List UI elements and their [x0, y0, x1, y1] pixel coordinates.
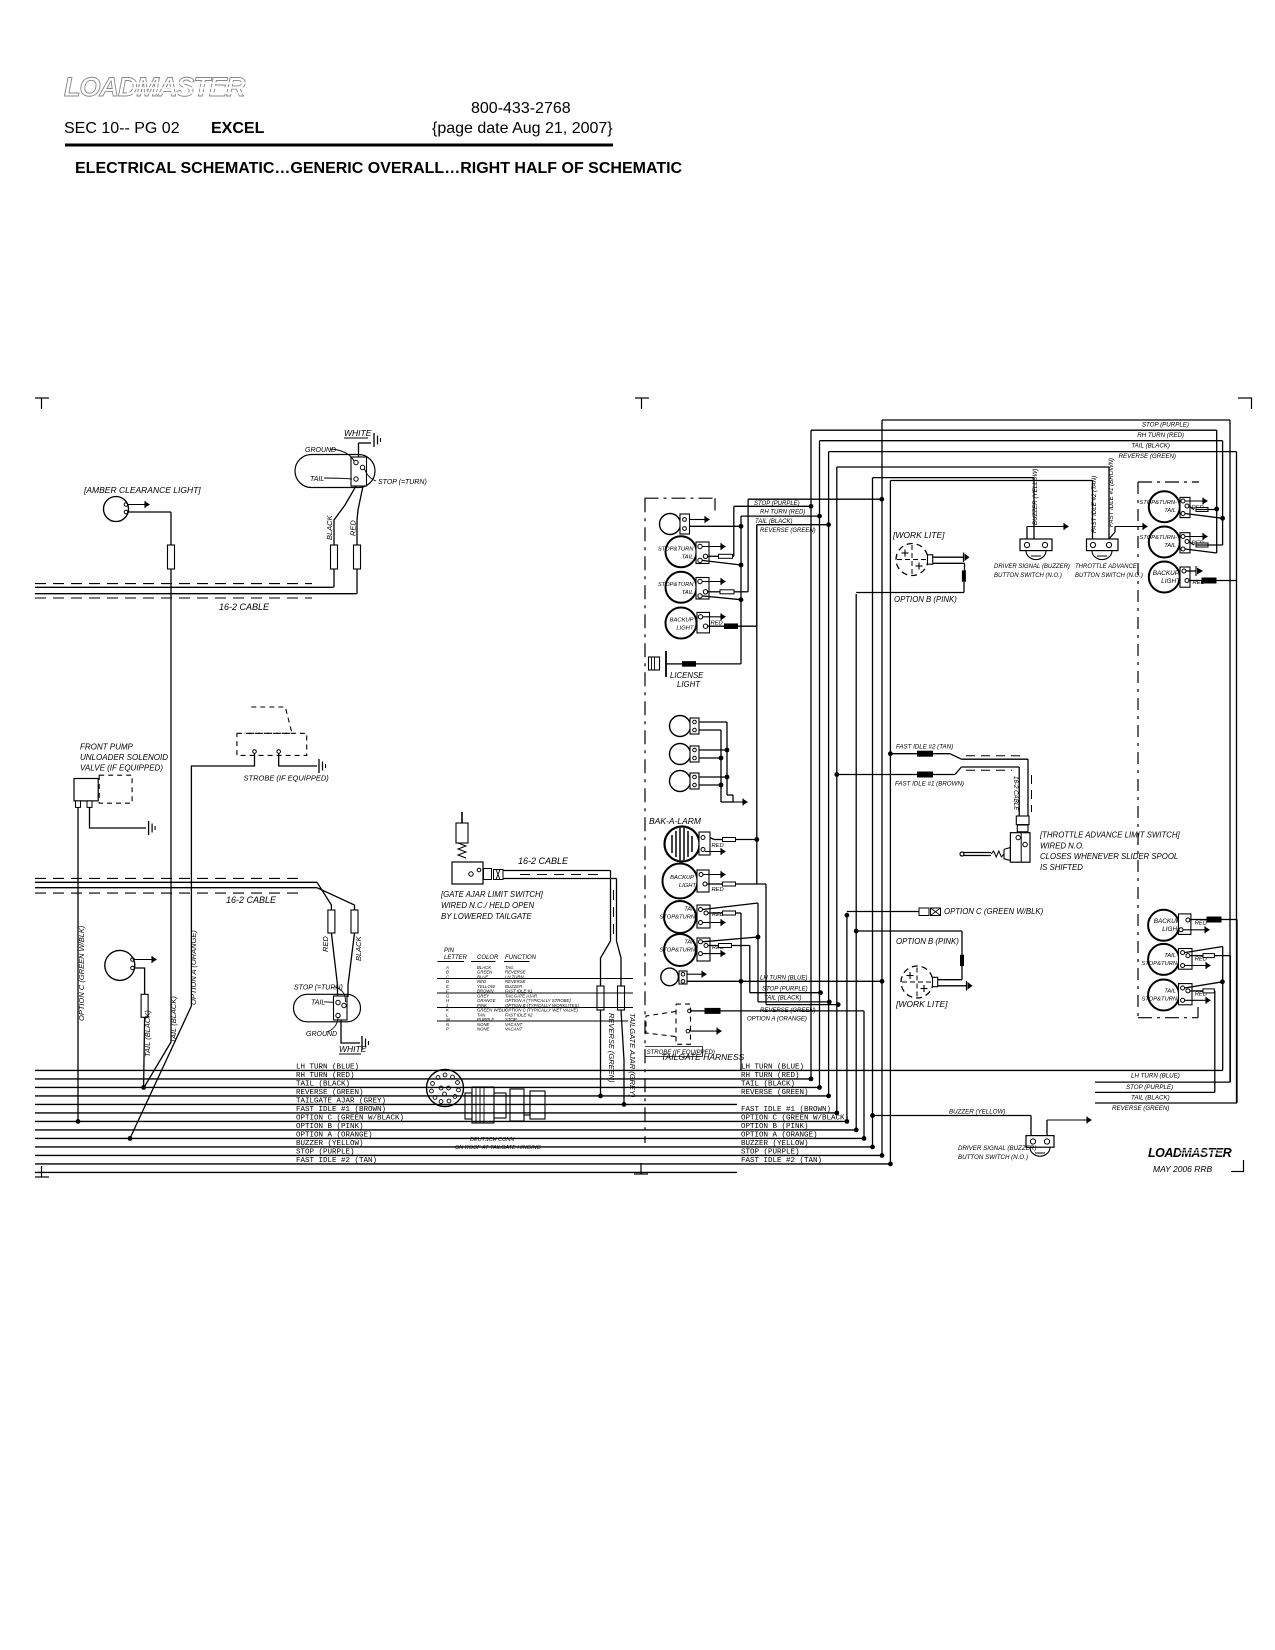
svg-text:TAIL (BLACK): TAIL (BLACK): [1131, 1094, 1170, 1101]
svg-text:LH TURN (BLUE): LH TURN (BLUE): [296, 1064, 359, 1072]
svg-text:OPTION C (GREEN W/BLACK): OPTION C (GREEN W/BLACK): [296, 1115, 404, 1123]
svg-text:STOP&TURN-: STOP&TURN-: [1141, 997, 1179, 1003]
svg-text:OPTION A (ORANGE): OPTION A (ORANGE): [296, 1132, 373, 1140]
svg-text:COLOR: COLOR: [477, 955, 499, 961]
R4 ground arrow: [1183, 929, 1206, 931]
wire RED from lower cable: [317, 882, 331, 910]
top feeder BUZZER: [873, 477, 1035, 479]
wire marker lamp to tail bus: [134, 968, 145, 994]
svg-text:OPTION C (GREEN W/BLK): OPTION C (GREEN W/BLK): [77, 925, 86, 1021]
svg-text:STOP&TURN: STOP&TURN: [658, 582, 694, 588]
header rule: [65, 144, 613, 147]
net stub STOP (PURPLE) group1: [748, 498, 882, 500]
riser RH TURN: [810, 430, 812, 1079]
wire BLACK from lower cable: [317, 888, 355, 910]
bus wire L2: [35, 1078, 811, 1080]
svg-text:RED: RED: [349, 520, 358, 536]
gate ajar limit switch antenna: [461, 812, 463, 843]
svg-text:OPTION B (PINK): OPTION B (PINK): [296, 1123, 364, 1131]
work lite upper dashed lamp: [896, 544, 928, 576]
backup light lamp group1: [666, 608, 697, 639]
svg-text:LIGHT: LIGHT: [1161, 578, 1181, 585]
R6 ground arrow: [1185, 999, 1207, 1001]
ground symbol solenoid: [148, 821, 150, 835]
top feeder TAIL (BLACK): [820, 440, 1223, 442]
corner mark bottom-middle: [634, 1173, 648, 1175]
R1 fuse wire to RH TURN feeder: [1196, 508, 1208, 512]
riser FAST IDLE #2: [889, 481, 891, 1164]
16-2 cable upper (sheath dashes): [35, 583, 312, 585]
bus wire L13: [35, 1171, 737, 1173]
svg-text:P: P: [446, 1026, 449, 1031]
bak-a-larm speaker: [665, 827, 700, 862]
far right wire STOP (PURPLE): [1095, 1081, 1230, 1083]
throttle advance limit switch body: [1010, 833, 1030, 863]
svg-text:WHITE: WHITE: [344, 428, 372, 438]
svg-text:FUNCTION: FUNCTION: [505, 955, 537, 961]
gate ajar limit switch body: [452, 862, 483, 884]
corner mark top-right: [1238, 397, 1252, 399]
svg-text:SEC 10-- PG 02: SEC 10-- PG 02: [64, 120, 180, 137]
R5 ground arrow: [1185, 965, 1207, 967]
svg-text:REVERSE (GREEN): REVERSE (GREEN): [1119, 453, 1176, 460]
svg-text:RH TURN (RED): RH TURN (RED): [296, 1072, 355, 1080]
solenoid valve body: [74, 779, 98, 801]
fuse and wire to RH TURN stub: [719, 554, 733, 558]
marker lamp left lower: [105, 950, 135, 980]
svg-text:TAIL: TAIL: [311, 1000, 325, 1007]
svg-text:RED: RED: [712, 843, 724, 849]
net stub RH TURN (RED) group1: [734, 505, 811, 507]
R5 fuse wire to STOP vertical: [1203, 954, 1214, 958]
svg-text:[WORK LITE]: [WORK LITE]: [895, 999, 948, 1009]
svg-text:TAIL: TAIL: [1164, 543, 1176, 549]
svg-text:OPTION B (PINK): OPTION B (PINK): [896, 937, 959, 946]
svg-text:BUTTON SWITCH (N.O.): BUTTON SWITCH (N.O.): [958, 1154, 1028, 1161]
R3 fuse wire to REVERSE feeder: [1202, 578, 1216, 583]
wire marker lamp to tail drop: [690, 525, 742, 527]
tailgate harness dash-dot border left: [644, 498, 646, 1143]
svg-text:BACKUP: BACKUP: [670, 875, 694, 881]
svg-text:LICENSE: LICENSE: [670, 671, 704, 680]
svg-text:[GATE AJAR LIMIT SWITCH]: [GATE AJAR LIMIT SWITCH]: [440, 890, 544, 899]
marker lamp group2 #1: [670, 716, 691, 737]
svg-text:BAK-A-LARM: BAK-A-LARM: [649, 816, 702, 826]
arrow from driver switch: [1026, 527, 1028, 540]
svg-text:{page date Aug 21, 2007}: {page date Aug 21, 2007}: [432, 120, 613, 137]
tail lamp oval upper: [295, 455, 375, 488]
svg-text:BUTTON SWITCH (N.O.): BUTTON SWITCH (N.O.): [994, 573, 1062, 579]
svg-text:REVERSE (GREEN): REVERSE (GREEN): [741, 1089, 809, 1097]
svg-text:STOP&TURN-: STOP&TURN-: [1141, 961, 1179, 967]
svg-text:OPTION A (ORANGE): OPTION A (ORANGE): [189, 930, 198, 1005]
svg-text:RH TURN (RED): RH TURN (RED): [741, 1072, 800, 1080]
svg-text:16-2 CABLE: 16-2 CABLE: [219, 602, 270, 612]
svg-text:BUZZER (YELLOW): BUZZER (YELLOW): [296, 1140, 364, 1148]
svg-text:PIN: PIN: [444, 948, 455, 954]
svg-text:RH TURN (RED): RH TURN (RED): [1137, 432, 1184, 439]
fuse and wire to STOP stub: [720, 590, 734, 594]
marker lamps ground arrow: [733, 801, 744, 803]
solenoid valve terminals: [76, 801, 81, 808]
corner mark top-left: [35, 397, 49, 399]
svg-text:TAIL: TAIL: [1164, 953, 1176, 959]
svg-text:[WORK LITE]: [WORK LITE]: [892, 530, 945, 540]
svg-text:OPTION B (PINK): OPTION B (PINK): [894, 595, 957, 604]
marker lamps common ground wires: [720, 730, 722, 802]
svg-text:BUZZER (YELLOW): BUZZER (YELLOW): [949, 1109, 1005, 1116]
net stub REVERSE (GREEN) group2: [766, 1004, 838, 1006]
svg-text:BACKUP: BACKUP: [1153, 570, 1180, 577]
wire row G long line: [437, 992, 633, 994]
svg-text:LIGHT: LIGHT: [679, 883, 697, 889]
fuse splice on amber light wire: [168, 545, 175, 569]
R6 slant to LH vertical: [1185, 982, 1223, 988]
stop&turn tail lamp R2: [1149, 527, 1180, 558]
bus wire L11: [35, 1154, 882, 1156]
strobe upper dashed body: [245, 707, 292, 733]
16-2 cable lower-left conductors: [35, 881, 317, 883]
svg-text:FAST IDLE #2 (TAN): FAST IDLE #2 (TAN): [741, 1157, 822, 1165]
wire work lite lower to option B riser: [938, 979, 962, 981]
svg-text:FAST IDLE #1 (BROWN): FAST IDLE #1 (BROWN): [741, 1106, 831, 1114]
svg-text:ELECTRICAL SCHEMATIC…GENERIC O: ELECTRICAL SCHEMATIC…GENERIC OVERALL…RIG…: [75, 160, 683, 177]
svg-text:BUZZER (YELLOW): BUZZER (YELLOW): [741, 1140, 809, 1148]
wire RED from upper tail lamp: [357, 486, 363, 545]
svg-text:TAIL: TAIL: [682, 554, 694, 560]
svg-text:IS SHIFTED: IS SHIFTED: [1040, 863, 1083, 872]
limit switch roller lever: [963, 852, 991, 854]
wire strobe right terminal to ground: [279, 754, 317, 767]
driver signal buzzer button switch lower: [1026, 1136, 1054, 1148]
wire row M long line: [437, 1020, 628, 1022]
marker lamp group2 #3: [670, 771, 691, 792]
svg-text:VACANT: VACANT: [505, 1026, 523, 1031]
wire WHITE lower to ground: [341, 1020, 360, 1043]
reverse chain wire down group2: [756, 525, 758, 840]
bak-a-larm fuse to reverse chain: [723, 838, 736, 842]
net stub STOP (PURPLE) group2: [750, 992, 821, 994]
net stub TAIL (BLACK) group2: [758, 1001, 829, 1003]
riser BUZZER: [872, 478, 874, 1147]
svg-text:STOP (=TURN): STOP (=TURN): [378, 479, 427, 486]
marker lamp ground arrow: [134, 959, 153, 961]
tailgate harness dash-dot border top: [645, 497, 716, 499]
svg-text:TAIL: TAIL: [682, 590, 694, 596]
arrow from throttle switch: [1109, 532, 1115, 539]
lamp t1 ground arrow: [703, 922, 722, 924]
riser OPTION A: [863, 1011, 865, 1139]
top feeder FAST IDLE #2: [890, 480, 1092, 482]
right group border bottom: [1138, 1017, 1198, 1019]
backup light lamp R3: [1149, 562, 1180, 593]
bus wire L4: [35, 1095, 829, 1097]
work lite upper connector: [928, 555, 933, 564]
deutsch connector side view: [465, 1093, 472, 1119]
ground arrow lamp: [702, 546, 722, 548]
svg-text:WIRED N.O.: WIRED N.O.: [1040, 842, 1084, 851]
work lite lower connector: [933, 977, 938, 986]
solenoid valve dashed section: [99, 775, 132, 803]
tail stop&turn lamp group2 #2: [664, 934, 696, 966]
16-2 cable lower-left (sheath dashes): [35, 877, 305, 879]
svg-text:BY LOWERED TAILGATE: BY LOWERED TAILGATE: [441, 912, 532, 921]
stop&turn tail lamp R1: [1149, 491, 1180, 522]
wire row K long line: [437, 1007, 633, 1009]
svg-text:STOP (=TURN): STOP (=TURN): [294, 985, 343, 992]
svg-text:TAIL: TAIL: [1164, 989, 1176, 995]
wire amber light to 16-2 cable: [128, 511, 171, 513]
wire solenoid second terminal to ground: [90, 807, 147, 828]
svg-text:OPTION B (PINK): OPTION B (PINK): [741, 1123, 809, 1131]
fuse on BLACK wire: [331, 545, 338, 569]
tail stop&turn lamp group2 #1: [664, 901, 696, 933]
svg-text:BACKUP: BACKUP: [670, 618, 694, 624]
svg-text:RH TURN (RED): RH TURN (RED): [760, 509, 805, 515]
svg-text:DRIVER SIGNAL (BUZZER): DRIVER SIGNAL (BUZZER): [958, 1145, 1036, 1152]
svg-text:STOP (PURPLE): STOP (PURPLE): [762, 986, 808, 992]
svg-text:STROBE (IF EQUIPPED): STROBE (IF EQUIPPED): [244, 774, 330, 783]
svg-text:800-433-2768: 800-433-2768: [471, 100, 571, 117]
lamp t1 fuse to LH chain: [723, 911, 736, 915]
svg-text:LOADMASTER: LOADMASTER: [64, 72, 246, 102]
right lamp group dash-dot border: [1138, 481, 1199, 483]
svg-text:STOP&TURN: STOP&TURN: [658, 546, 694, 552]
svg-text:FAST IDLE #1 (BROWN): FAST IDLE #1 (BROWN): [296, 1106, 386, 1114]
tail lamp upper connector: [351, 457, 367, 486]
svg-text:STOP (PURPLE): STOP (PURPLE): [1142, 422, 1189, 429]
svg-text:TAILGATE AJAR (GREY): TAILGATE AJAR (GREY): [628, 1013, 637, 1098]
svg-text:16-2 CABLE: 16-2 CABLE: [226, 895, 277, 905]
gate ajar switch connector halves: [484, 869, 492, 880]
R2 ground slant: [1185, 549, 1217, 553]
svg-text:TAIL: TAIL: [684, 907, 696, 913]
marker lamp group1 ground arrow: [690, 519, 706, 521]
wire amber trunk slant to TAIL bus junction: [144, 1042, 171, 1087]
svg-text:REVERSE (GREEN): REVERSE (GREEN): [1112, 1105, 1169, 1112]
top feeder STOP (PURPLE): [882, 419, 1230, 421]
svg-text:STOP&TURN-: STOP&TURN-: [659, 915, 697, 921]
bus wire L7: [35, 1120, 847, 1122]
marker lamp group1 top: [660, 514, 681, 535]
svg-text:STOP (PURPLE): STOP (PURPLE): [296, 1149, 355, 1157]
svg-text:TAIL: TAIL: [684, 940, 696, 946]
work lite lower dashed lamp: [901, 966, 933, 998]
svg-text:BLACK: BLACK: [325, 514, 334, 540]
tail stop&turn lamp R6: [1148, 980, 1179, 1011]
net stub REVERSE (GREEN) group1: [757, 524, 829, 526]
backup light lamp R4 lower right: [1148, 910, 1179, 941]
svg-text:TAIL (BLACK): TAIL (BLACK): [296, 1081, 350, 1089]
svg-text:GROUND: GROUND: [305, 447, 336, 454]
riser FAST IDLE #1: [836, 467, 838, 1113]
bus wire L9: [35, 1137, 864, 1139]
R6 fuse wire to TAIL vertical: [1203, 989, 1214, 993]
riser OPTION C: [846, 915, 848, 1121]
strobe upper terminals: [253, 750, 257, 754]
svg-text:OPTION C (GREEN W/BLK): OPTION C (GREEN W/BLK): [944, 907, 1044, 916]
svg-text:RED: RED: [321, 936, 330, 952]
backup light lamp group2: [663, 864, 698, 899]
svg-text:RED: RED: [712, 887, 724, 893]
svg-text:LH TURN (BLUE): LH TURN (BLUE): [741, 1064, 804, 1072]
option C breakout connector: [845, 913, 850, 918]
svg-text:THROTTLE ADVANCE: THROTTLE ADVANCE: [1075, 564, 1138, 570]
svg-text:TAIL (BLACK): TAIL (BLACK): [764, 996, 801, 1002]
svg-text:UNLOADER SOLENOID: UNLOADER SOLENOID: [80, 753, 168, 762]
ground symbol lower oval: [361, 1036, 363, 1050]
svg-text:LH TURN (BLUE): LH TURN (BLUE): [1131, 1073, 1180, 1080]
svg-text:FAST IDLE #1 (BROWN): FAST IDLE #1 (BROWN): [1108, 458, 1115, 527]
stop&turn tail lamp group1 upper: [666, 536, 697, 567]
lamp t2 ground arrow: [703, 953, 722, 955]
bus wire L10: [35, 1146, 873, 1148]
svg-text:FAST IDLE #2 (TAN): FAST IDLE #2 (TAN): [1091, 476, 1098, 533]
svg-text:TAIL (BLACK): TAIL (BLACK): [169, 996, 178, 1043]
svg-text:16-2 CABLE: 16-2 CABLE: [518, 856, 569, 866]
corner mark bottom-left: [35, 1176, 49, 1178]
svg-text:TAIL (BLACK): TAIL (BLACK): [741, 1081, 795, 1089]
wire strobe lower to OPTION A riser: [691, 1010, 705, 1012]
driver signal buzzer button switch: [1020, 539, 1052, 551]
top feeder FAST IDLE #1: [837, 466, 1109, 468]
junction TAIL bus: [141, 1085, 146, 1090]
svg-text:LIGHT: LIGHT: [677, 680, 701, 689]
svg-text:GROUND: GROUND: [306, 1031, 337, 1038]
svg-text:OPTION C (GREEN W/BLACK): OPTION C (GREEN W/BLACK): [741, 1115, 849, 1123]
16-2 cable upper conductors: [35, 586, 334, 588]
marker lamp group2 bottom: [661, 968, 679, 986]
riser REVERSE: [828, 452, 830, 1096]
fuse BLACK lower oval: [351, 910, 358, 933]
svg-text:STOP (PURPLE): STOP (PURPLE): [741, 1149, 800, 1157]
wire TAILGATE AJAR (GREY) from gate switch: [617, 941, 622, 986]
ground symbol at upper tail lamp: [373, 433, 375, 447]
fuse on RED wire: [354, 545, 361, 569]
bus wire L3: [35, 1086, 820, 1088]
svg-text:REVERSE (GREEN): REVERSE (GREEN): [607, 1013, 616, 1083]
svg-text:REVERSE (GREEN): REVERSE (GREEN): [760, 528, 816, 534]
bus wire L5: [35, 1103, 737, 1105]
wire ground pin to tail drop: [702, 560, 741, 565]
svg-text:STOP&TURN-: STOP&TURN-: [1139, 535, 1177, 541]
fuse marker lamp wire: [141, 994, 148, 1017]
license light fuse: [683, 662, 696, 667]
bus wire L6: [35, 1112, 837, 1114]
marker lamp group2 #2: [670, 744, 691, 765]
svg-text:RED: RED: [1195, 921, 1207, 927]
fuse RED lower oval: [328, 910, 335, 933]
svg-text:BUTTON SWITCH (N.O.): BUTTON SWITCH (N.O.): [1075, 573, 1143, 579]
wire license to tail drop: [740, 516, 742, 664]
buzzer bottom wire: [870, 1113, 875, 1118]
riser OPTION B: [855, 594, 857, 1130]
R5 slant to LH vertical: [1185, 947, 1223, 953]
tail stop&turn lamp R5: [1148, 944, 1179, 975]
arrow from lower driver switch: [1046, 1120, 1048, 1136]
ground symbol strobe upper: [318, 759, 320, 773]
svg-text:OPTION A (ORANGE): OPTION A (ORANGE): [747, 1017, 807, 1023]
svg-text:FAST IDLE #2 (TAN): FAST IDLE #2 (TAN): [296, 1157, 377, 1165]
svg-text:REVERSE (GREEN): REVERSE (GREEN): [296, 1089, 364, 1097]
svg-text:TAILGATE HARNESS: TAILGATE HARNESS: [661, 1052, 745, 1062]
wire FAST IDLE #2 to limit switch cable: [888, 751, 893, 756]
junction solenoid wire on OPTION C bus: [76, 1119, 81, 1124]
lamp t2 fuse to STOP chain: [719, 944, 732, 948]
svg-text:DRIVER SIGNAL (BUZZER): DRIVER SIGNAL (BUZZER): [994, 564, 1070, 570]
wire strobe to OPTION A trunk: [191, 754, 254, 1007]
license light symbol: [649, 657, 660, 670]
tail lamp lower connector: [334, 996, 348, 1020]
corner mark bottom-right: [1231, 1171, 1244, 1173]
bus wire L8: [35, 1129, 856, 1131]
svg-text:16-2 CABLE: 16-2 CABLE: [1012, 776, 1019, 811]
bus wire L1: [35, 1069, 1223, 1071]
svg-text:WIRED N.C./ HELD OPEN: WIRED N.C./ HELD OPEN: [441, 901, 535, 910]
wire FAST IDLE #1 to limit switch cable: [834, 772, 839, 777]
wire amber light trunk down to tail bus: [170, 569, 172, 1042]
wire work lite to option B riser: [933, 556, 964, 558]
svg-text:BUZZER (YELLOW): BUZZER (YELLOW): [1032, 469, 1039, 525]
far right wire TAIL (BLACK): [1095, 1091, 1215, 1093]
wire solenoid to OPTION C bus: [77, 807, 79, 1121]
stop&turn tail lamp group1 lower: [666, 572, 697, 603]
limit switch connector: [1016, 816, 1029, 825]
wire strobe OPTION A slant to bus: [130, 1006, 191, 1138]
svg-text:[AMBER CLEARANCE LIGHT]: [AMBER CLEARANCE LIGHT]: [83, 485, 201, 495]
wire row C long line: [437, 978, 633, 980]
svg-text:MAY 2006 RRB: MAY 2006 RRB: [1153, 1164, 1213, 1174]
16-2 cable center turn down: [610, 871, 612, 942]
svg-text:CLOSES WHENEVER SLIDER SPOOL: CLOSES WHENEVER SLIDER SPOOL: [1040, 852, 1178, 861]
net stub TAIL (BLACK) group1: [741, 515, 820, 517]
deutsch connector face: [427, 1070, 464, 1107]
svg-text:LIGHT: LIGHT: [676, 626, 694, 632]
svg-text:EXCEL: EXCEL: [211, 120, 265, 137]
svg-text:STOP&TURN-: STOP&TURN-: [1139, 500, 1177, 506]
svg-text:STOP&TURN-: STOP&TURN-: [659, 948, 697, 954]
svg-text:STOP (PURPLE): STOP (PURPLE): [1126, 1084, 1173, 1091]
tail lamp oval lower: [294, 994, 361, 1022]
amber clearance light ground arrow: [128, 504, 146, 506]
svg-text:BACKUP: BACKUP: [1154, 918, 1181, 925]
backup group2 fuse to reverse chain: [723, 882, 736, 886]
corner mark top-middle: [635, 397, 649, 399]
bak-a-larm ground arrow: [705, 851, 722, 853]
wire BLACK from upper tail lamp: [334, 486, 356, 545]
R4 wire to REVERSE line: [1236, 920, 1238, 1104]
amber clearance light lamp: [104, 497, 129, 522]
riser TAIL: [819, 441, 821, 1088]
svg-text:VALVE (IF EQUIPPED): VALVE (IF EQUIPPED): [80, 764, 163, 773]
svg-text:TAIL: TAIL: [310, 476, 324, 483]
svg-text:ON ROOF AT TAILGATE HINGING: ON ROOF AT TAILGATE HINGING: [455, 1145, 542, 1151]
strobe lower arrow: [690, 1030, 718, 1032]
svg-text:LETTER: LETTER: [444, 955, 468, 961]
R1 ground slant to TAIL feeder: [1185, 514, 1223, 519]
top feeder RH TURN (RED): [811, 429, 1217, 431]
svg-text:NONE: NONE: [477, 1026, 490, 1031]
svg-text:LH TURN (BLUE): LH TURN (BLUE): [760, 976, 807, 982]
svg-text:BLACK: BLACK: [354, 935, 363, 961]
svg-text:TAIL: TAIL: [1164, 508, 1176, 514]
fuse and wire to REVERSE stub: [725, 624, 738, 629]
wire ground pin to tail drop: [702, 596, 741, 600]
wire REVERSE (GREEN) from gate switch: [601, 941, 611, 986]
tail pin slant to tail chain: [703, 903, 759, 910]
R2 fuse wire: [1196, 543, 1208, 547]
svg-text:TAILGATE AJAR (GREY): TAILGATE AJAR (GREY): [296, 1098, 386, 1106]
